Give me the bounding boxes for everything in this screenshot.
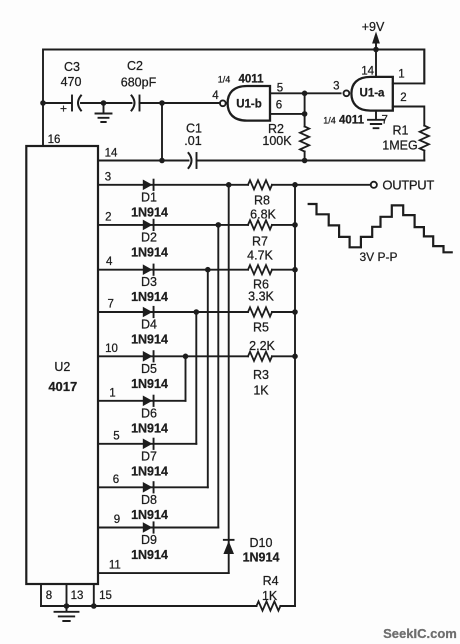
svg-text:7: 7: [382, 115, 388, 127]
svg-text:1/4: 1/4: [218, 75, 231, 85]
svg-text:R5: R5: [253, 321, 269, 335]
svg-text:1N914: 1N914: [131, 464, 168, 478]
svg-text:5: 5: [113, 430, 119, 442]
svg-text:D1: D1: [141, 190, 157, 204]
svg-text:2: 2: [105, 211, 111, 223]
svg-text:6.8K: 6.8K: [250, 208, 276, 222]
svg-text:D8: D8: [141, 493, 157, 507]
svg-text:R3: R3: [253, 368, 269, 382]
svg-text:+9V: +9V: [362, 20, 385, 34]
svg-text:D7: D7: [141, 449, 157, 463]
svg-text:3V P-P: 3V P-P: [359, 250, 397, 264]
svg-text:1N914: 1N914: [131, 205, 168, 219]
svg-text:D3: D3: [141, 275, 157, 289]
svg-text:16: 16: [48, 134, 61, 146]
svg-text:1K: 1K: [253, 384, 269, 398]
svg-text:13: 13: [71, 590, 84, 602]
svg-text:4011: 4011: [239, 74, 265, 86]
svg-text:D6: D6: [141, 406, 157, 420]
svg-text:D2: D2: [141, 230, 157, 244]
svg-text:680pF: 680pF: [121, 76, 157, 90]
svg-text:R1: R1: [393, 124, 409, 138]
svg-text:1N914: 1N914: [131, 377, 168, 391]
svg-text:1K: 1K: [262, 589, 278, 603]
svg-text:C2: C2: [127, 59, 143, 73]
svg-text:6: 6: [276, 100, 282, 112]
svg-text:4.7K: 4.7K: [247, 249, 273, 263]
svg-text:1: 1: [109, 387, 115, 399]
svg-text:+: +: [60, 102, 67, 116]
svg-text:11: 11: [109, 560, 121, 572]
svg-text:1N914: 1N914: [131, 548, 168, 562]
svg-text:4: 4: [106, 256, 113, 268]
svg-text:1N914: 1N914: [131, 245, 168, 259]
svg-text:1: 1: [398, 69, 404, 81]
svg-text:15: 15: [99, 590, 112, 602]
svg-text:4: 4: [212, 90, 219, 102]
svg-text:C3: C3: [64, 60, 80, 74]
svg-text:4011: 4011: [339, 115, 365, 127]
svg-text:OUTPUT: OUTPUT: [382, 177, 434, 192]
svg-text:1N914: 1N914: [131, 290, 168, 304]
svg-text:1/4: 1/4: [323, 116, 336, 126]
svg-text:U1-b: U1-b: [236, 99, 262, 111]
svg-text:2.2K: 2.2K: [249, 339, 275, 353]
svg-text:3: 3: [105, 171, 111, 183]
svg-text:7: 7: [107, 299, 113, 311]
svg-text:8: 8: [46, 590, 52, 602]
svg-text:U1-a: U1-a: [360, 87, 386, 99]
svg-text:D4: D4: [141, 318, 157, 332]
svg-text:R8: R8: [254, 194, 270, 208]
svg-text:470: 470: [61, 75, 82, 89]
svg-text:2: 2: [400, 92, 406, 104]
svg-text:1N914: 1N914: [243, 551, 280, 565]
svg-text:3.3K: 3.3K: [248, 290, 274, 304]
svg-text:3: 3: [333, 81, 339, 93]
svg-text:9: 9: [114, 514, 120, 526]
svg-text:D5: D5: [141, 362, 157, 376]
svg-text:.01: .01: [184, 134, 201, 148]
svg-text:1MEG: 1MEG: [382, 139, 417, 153]
svg-text:14: 14: [105, 148, 118, 160]
svg-text:5: 5: [277, 83, 283, 95]
svg-text:1N914: 1N914: [131, 508, 168, 522]
svg-text:SeekIC.com: SeekIC.com: [383, 626, 457, 641]
svg-text:6: 6: [113, 474, 119, 486]
svg-text:14: 14: [361, 66, 374, 78]
svg-text:D10: D10: [250, 536, 273, 550]
svg-text:4017: 4017: [48, 379, 77, 394]
svg-text:R4: R4: [263, 574, 279, 588]
svg-text:U2: U2: [54, 360, 70, 374]
svg-text:1N914: 1N914: [131, 333, 168, 347]
svg-text:1N914: 1N914: [131, 421, 168, 435]
svg-text:10: 10: [105, 343, 118, 355]
svg-text:D9: D9: [141, 533, 157, 547]
svg-text:R7: R7: [252, 235, 268, 249]
svg-text:100K: 100K: [262, 134, 292, 148]
